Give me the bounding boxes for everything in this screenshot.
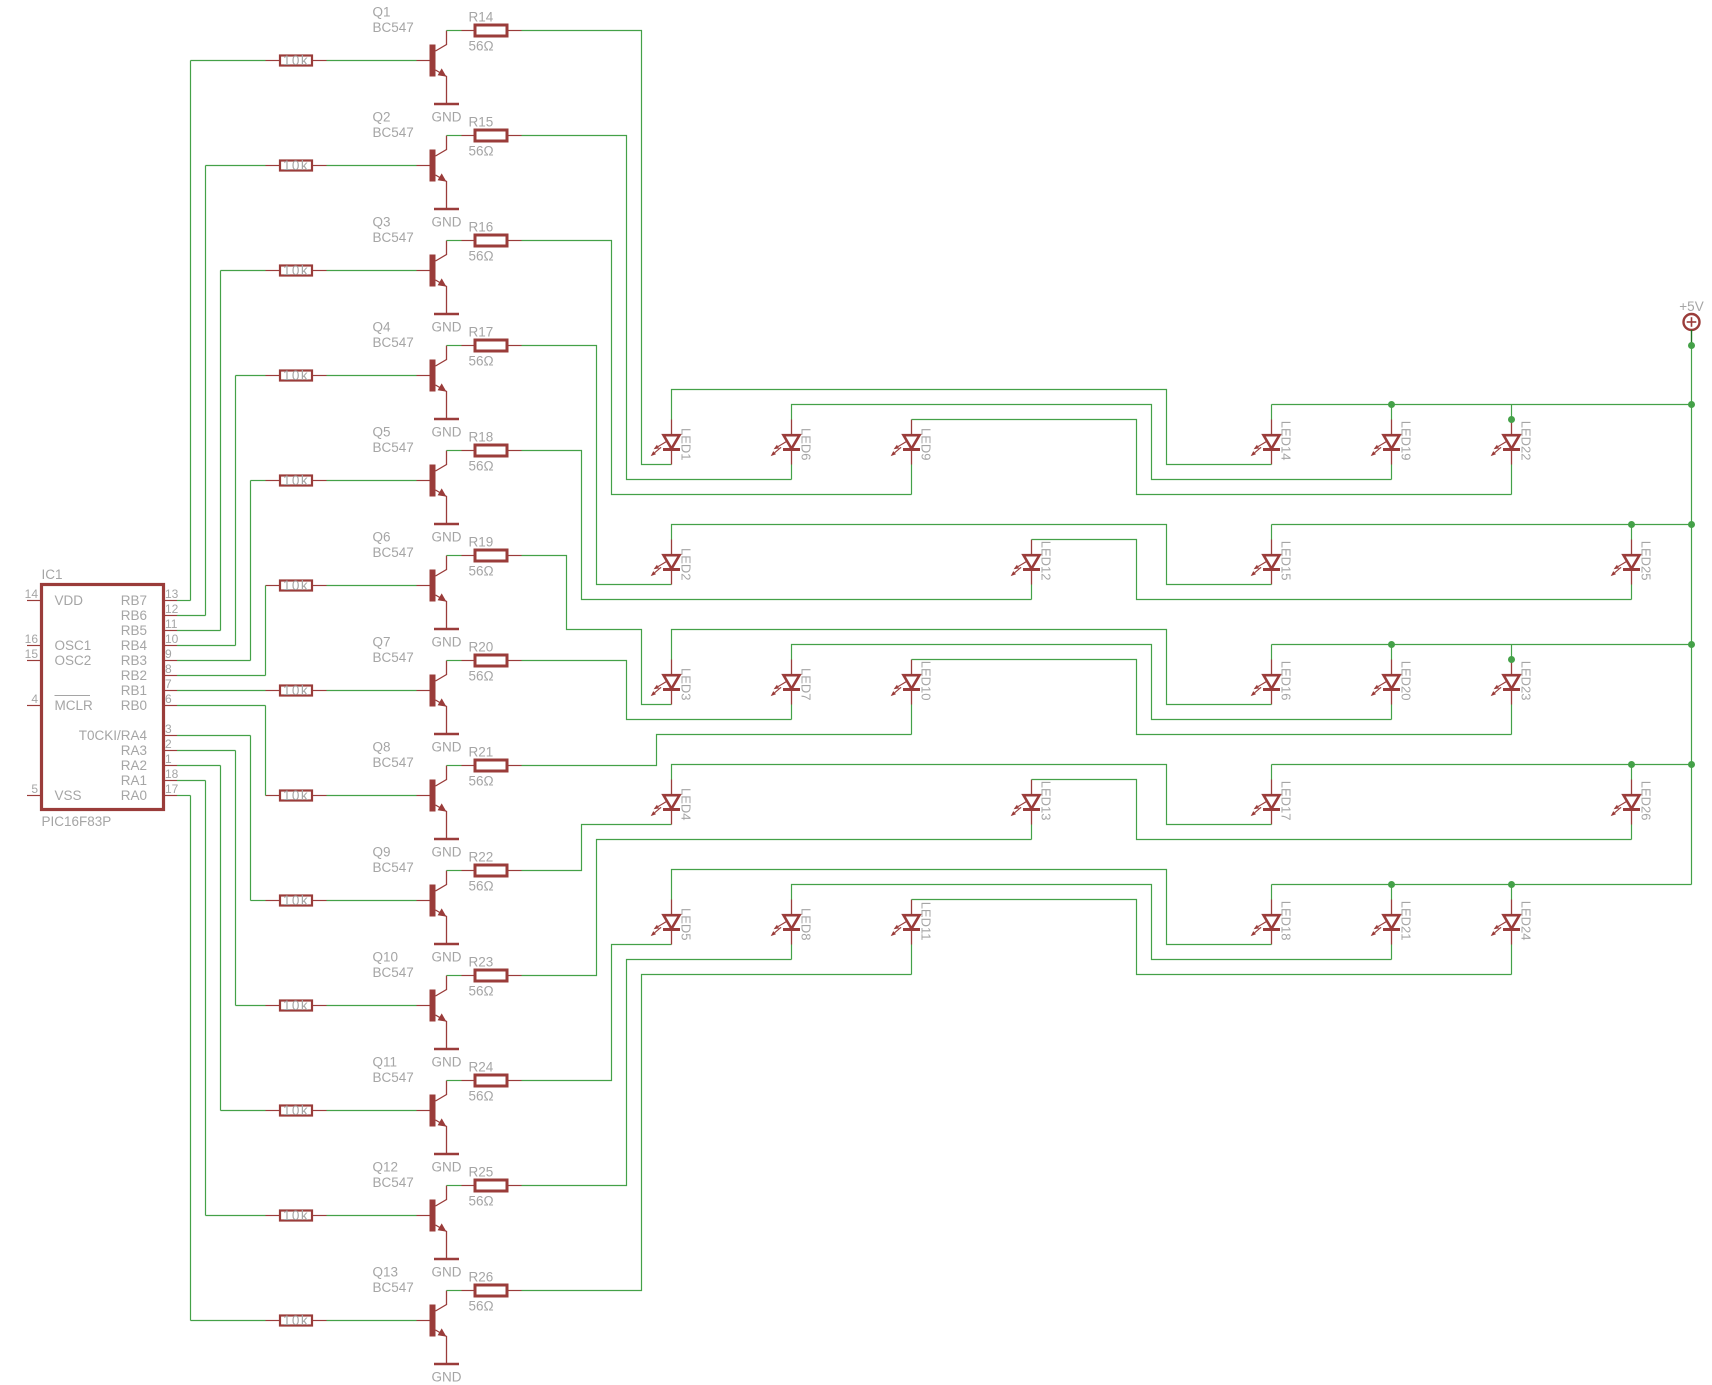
svg-text:LED12: LED12 <box>1039 541 1054 581</box>
svg-text:R15: R15 <box>469 115 494 130</box>
IC1 pin 9 (RB3) stub <box>164 660 178 662</box>
IC1 pin 7 (RB1) stub <box>164 690 178 692</box>
svg-text:RA3: RA3 <box>121 743 147 758</box>
wire net RB7: feeder vertical to Q1 row <box>190 61 192 601</box>
svg-text:Q2: Q2 <box>373 110 391 125</box>
svg-text:R17: R17 <box>469 325 494 340</box>
svg-text:Q13: Q13 <box>373 1265 399 1280</box>
svg-text:LED5: LED5 <box>679 908 694 941</box>
resistor 10k (base of Q9) pins <box>266 900 281 902</box>
wire +5V rail vertical <box>1691 346 1693 885</box>
wire LED6 anode to LED19 cathode <box>792 405 1392 480</box>
svg-text:1: 1 <box>165 752 172 766</box>
resistor R15 pins <box>462 135 476 137</box>
resistor R23 pins <box>462 975 476 977</box>
transistor Q12 emitter <box>436 1225 447 1259</box>
transistor Q9 BC547 base bar <box>430 885 436 917</box>
svg-text:R16: R16 <box>469 220 494 235</box>
wire net RB2: feeder vertical to Q6 row <box>265 586 267 676</box>
transistor Q13 emitter arrow <box>438 1328 447 1336</box>
svg-text:LED21: LED21 <box>1399 901 1414 941</box>
wire Q10 collector to R23 <box>447 975 462 977</box>
svg-text:T0CKI/RA4: T0CKI/RA4 <box>79 728 148 743</box>
svg-text:BC547: BC547 <box>373 440 414 455</box>
transistor Q12 emitter arrow <box>438 1223 447 1231</box>
svg-text:RA1: RA1 <box>121 773 147 788</box>
MCLR overline <box>55 695 91 697</box>
svg-text:GND: GND <box>432 530 462 545</box>
svg-text:LED4: LED4 <box>679 788 694 821</box>
svg-text:BC547: BC547 <box>373 1070 414 1085</box>
LED LED15 symbol <box>1251 540 1280 585</box>
svg-text:LED23: LED23 <box>1519 661 1534 701</box>
ground symbol GND (Q13 emitter) <box>434 1363 459 1366</box>
wire LED21 cathode extension <box>1391 945 1393 960</box>
transistor Q5 emitter <box>436 490 447 524</box>
wire LED8 anode to LED21 cathode <box>792 885 1392 960</box>
resistor 10k (base of Q5) pins <box>266 480 281 482</box>
svg-text:LED19: LED19 <box>1399 421 1414 461</box>
LED LED23 symbol <box>1491 660 1520 705</box>
transistor Q5 collector <box>436 451 447 472</box>
svg-text:56Ω: 56Ω <box>469 354 494 369</box>
svg-text:BC547: BC547 <box>373 860 414 875</box>
IC1 pin 11 (RB5) stub <box>164 630 178 632</box>
svg-text:R20: R20 <box>469 640 494 655</box>
transistor Q10 emitter arrow <box>438 1013 447 1021</box>
svg-text:56Ω: 56Ω <box>469 1089 494 1104</box>
LED LED19 symbol <box>1371 420 1400 465</box>
wire Q6 collector to R19 <box>447 555 462 557</box>
svg-text:8: 8 <box>165 662 172 676</box>
transistor Q7 collector <box>436 661 447 682</box>
transistor Q8 emitter <box>436 805 447 839</box>
svg-text:LED17: LED17 <box>1279 781 1294 821</box>
svg-text:10k: 10k <box>283 1313 309 1328</box>
wire net RA4: feeder vertical to Q9 row <box>250 736 252 901</box>
wire net RB1: IC pin 7 to Q7 base resistor <box>177 690 266 692</box>
wire LED11 anode to LED24 cathode <box>912 900 1512 975</box>
LED LED2 symbol <box>651 540 680 585</box>
wire LED24 anode riser <box>1511 885 1513 900</box>
wire LED11 cathode extension <box>911 945 913 975</box>
svg-text:56Ω: 56Ω <box>469 39 494 54</box>
svg-text:7: 7 <box>165 677 172 691</box>
svg-text:LED15: LED15 <box>1279 541 1294 581</box>
transistor Q2 base pin <box>417 165 430 167</box>
LED LED6 symbol <box>771 420 800 465</box>
svg-text:LED11: LED11 <box>919 902 934 941</box>
resistor 10k (base of Q13) pins <box>266 1320 281 1322</box>
wire LED9 cathode extension <box>911 465 913 495</box>
svg-text:4: 4 <box>31 692 38 706</box>
resistor R20 pins <box>462 660 476 662</box>
wire LED4 anode to LED17 cathode <box>672 765 1272 825</box>
svg-text:LED1: LED1 <box>679 428 694 461</box>
transistor Q13 collector <box>436 1291 447 1312</box>
wire LED22 cathode extension <box>1511 465 1513 495</box>
wire base resistor to Q7 base <box>327 690 417 692</box>
svg-text:Q12: Q12 <box>373 1160 399 1175</box>
transistor Q6 base pin <box>417 585 430 587</box>
LED LED8 symbol <box>771 900 800 945</box>
transistor Q5 base pin <box>417 480 430 482</box>
transistor Q13 base pin <box>417 1320 430 1322</box>
svg-text:12: 12 <box>165 602 179 616</box>
IC1 pin 15 (OSC2) stub <box>27 660 42 662</box>
ground symbol GND (Q3 emitter) <box>434 313 459 316</box>
wire Q12 collector to R25 <box>447 1185 462 1187</box>
wire net RA2: feeder vertical to Q11 row <box>220 766 222 1111</box>
transistor Q6 emitter <box>436 595 447 629</box>
svg-text:GND: GND <box>432 740 462 755</box>
svg-text:BC547: BC547 <box>373 965 414 980</box>
transistor Q10 BC547 base bar <box>430 990 436 1022</box>
wire base resistor to Q2 base <box>327 165 417 167</box>
junction LED26 anode <box>1628 761 1635 768</box>
transistor Q9 collector <box>436 871 447 892</box>
transistor Q6 collector <box>436 556 447 577</box>
svg-text:Q5: Q5 <box>373 425 391 440</box>
svg-text:R22: R22 <box>469 850 494 865</box>
transistor Q8 collector <box>436 766 447 787</box>
wire LED25 cathode extension <box>1631 585 1633 600</box>
wire LED26 cathode extension <box>1631 825 1633 840</box>
wire +5V bus row 2 <box>1272 524 1692 526</box>
wire LED7 cathode extension <box>791 705 793 720</box>
IC1 pin 1 (RA2) stub <box>164 765 178 767</box>
svg-text:15: 15 <box>25 647 39 661</box>
svg-text:+5V: +5V <box>1679 299 1703 314</box>
svg-text:Q7: Q7 <box>373 635 391 650</box>
resistor 10k (base of Q11) body <box>280 1106 312 1116</box>
wire LED1 anode to LED14 cathode <box>672 390 1272 465</box>
LED LED25 symbol <box>1611 540 1640 585</box>
wire base resistor to Q1 base <box>327 60 417 62</box>
svg-text:LED9: LED9 <box>919 428 934 461</box>
LED LED7 symbol <box>771 660 800 705</box>
resistor R22 pins <box>462 870 476 872</box>
ground symbol GND (Q2 emitter) <box>434 208 459 211</box>
svg-text:56Ω: 56Ω <box>469 669 494 684</box>
svg-text:RB4: RB4 <box>121 638 148 653</box>
resistor 10k (base of Q1) pins <box>266 60 281 62</box>
resistor R14 pins <box>462 30 476 32</box>
resistor R19 pins <box>462 555 476 557</box>
svg-text:10: 10 <box>165 632 179 646</box>
transistor Q6 emitter arrow <box>438 593 447 601</box>
LED LED1 symbol <box>651 420 680 465</box>
svg-text:GND: GND <box>432 1160 462 1175</box>
wire net RA0: feeder vertical to Q13 row <box>190 796 192 1321</box>
transistor Q9 emitter arrow <box>438 908 447 916</box>
svg-text:GND: GND <box>432 950 462 965</box>
svg-text:10k: 10k <box>283 998 309 1013</box>
svg-text:Q4: Q4 <box>373 320 392 335</box>
svg-text:LED24: LED24 <box>1519 901 1534 941</box>
wire net RB5: feeder vertical to Q3 row <box>220 271 222 631</box>
wire +5V bus row 4 <box>1272 764 1692 766</box>
wire net RA4: IC pin stub to feeder (horizontal) <box>177 735 251 737</box>
wire LED23 cathode extension <box>1511 705 1513 735</box>
wire base resistor to Q4 base <box>327 375 417 377</box>
transistor Q5 BC547 base bar <box>430 465 436 497</box>
transistor Q7 base pin <box>417 690 430 692</box>
wire LED2 anode to LED15 cathode <box>672 525 1272 585</box>
svg-text:LED26: LED26 <box>1639 781 1654 821</box>
wire net RA0: Q13 base row horizontal <box>191 1320 266 1322</box>
transistor Q11 emitter arrow <box>438 1118 447 1126</box>
wire LED22 anode riser <box>1511 405 1513 420</box>
svg-text:3: 3 <box>165 722 172 736</box>
svg-text:RA0: RA0 <box>121 788 147 803</box>
svg-text:R19: R19 <box>469 535 494 550</box>
resistor R22 body <box>475 865 507 876</box>
wire net RB5: IC pin stub to feeder (horizontal) <box>177 630 221 632</box>
resistor R19 body <box>475 550 507 561</box>
svg-text:RB6: RB6 <box>121 608 147 623</box>
svg-text:56Ω: 56Ω <box>469 879 494 894</box>
svg-text:BC547: BC547 <box>373 335 414 350</box>
resistor R25 pins <box>462 1185 476 1187</box>
svg-text:LED7: LED7 <box>799 668 814 701</box>
wire net RB0: IC pin stub to feeder (horizontal) <box>177 705 266 707</box>
LED LED24 symbol <box>1491 900 1520 945</box>
wire LED10 anode to LED23 cathode <box>912 660 1512 735</box>
LED LED12 symbol <box>1011 540 1040 585</box>
wire net R22 output to LED4 cathode <box>522 825 672 871</box>
wire net R26 output to LED11 cathode <box>522 975 912 1291</box>
ground symbol GND (Q10 emitter) <box>434 1048 459 1051</box>
resistor R18 pins <box>462 450 476 452</box>
svg-text:56Ω: 56Ω <box>469 459 494 474</box>
resistor 10k (base of Q7) pins <box>266 690 281 692</box>
wire LED3 anode to LED16 cathode <box>672 630 1272 705</box>
transistor Q3 collector <box>436 241 447 262</box>
resistor 10k (base of Q1) body <box>280 56 312 66</box>
LED LED17 symbol <box>1251 780 1280 825</box>
svg-text:BC547: BC547 <box>373 20 414 35</box>
wire net RB3: feeder vertical to Q5 row <box>250 481 252 661</box>
transistor Q7 emitter arrow <box>438 698 447 706</box>
svg-text:Q6: Q6 <box>373 530 391 545</box>
wire net RB4: IC pin stub to feeder (horizontal) <box>177 645 236 647</box>
transistor Q9 emitter <box>436 910 447 944</box>
svg-text:18: 18 <box>165 767 179 781</box>
wire LED23 anode riser <box>1511 645 1513 660</box>
resistor R17 body <box>475 340 507 351</box>
wire LED12 cathode extension <box>1031 585 1033 600</box>
resistor 10k (base of Q6) body <box>280 581 312 591</box>
junction bus2/rail <box>1688 521 1695 528</box>
wire LED19 cathode extension <box>1391 465 1393 480</box>
wire LED18 anode riser <box>1271 885 1273 900</box>
wire net RA3: Q10 base row horizontal <box>236 1005 266 1007</box>
svg-text:GND: GND <box>432 1265 462 1280</box>
svg-text:GND: GND <box>432 320 462 335</box>
svg-text:LED13: LED13 <box>1039 781 1054 821</box>
transistor Q2 emitter arrow <box>438 173 447 181</box>
ground symbol GND (Q8 emitter) <box>434 838 459 841</box>
wire LED25 anode riser <box>1631 525 1633 540</box>
svg-text:LED10: LED10 <box>919 661 934 701</box>
junction LED24 anode <box>1508 881 1515 888</box>
svg-text:13: 13 <box>165 587 179 601</box>
wire base resistor to Q8 base <box>327 795 417 797</box>
resistor 10k (base of Q2) body <box>280 161 312 171</box>
IC1 pin 2 (RA3) stub <box>164 750 178 752</box>
svg-text:10k: 10k <box>283 53 309 68</box>
transistor Q4 collector <box>436 346 447 367</box>
svg-text:Q9: Q9 <box>373 845 391 860</box>
resistor 10k (base of Q10) pins <box>266 1005 281 1007</box>
LED LED22 symbol <box>1491 420 1520 465</box>
svg-text:RB3: RB3 <box>121 653 147 668</box>
wire LED10 cathode extension <box>911 705 913 735</box>
svg-text:10k: 10k <box>283 788 309 803</box>
wire +5V bus row 3 <box>1272 644 1692 646</box>
resistor R17 pins <box>462 345 476 347</box>
transistor Q3 BC547 base bar <box>430 255 436 287</box>
junction bus3/rail <box>1688 641 1695 648</box>
svg-text:17: 17 <box>165 782 179 796</box>
svg-text:OSC2: OSC2 <box>55 653 92 668</box>
junction LED22 anode <box>1508 416 1515 423</box>
svg-text:GND: GND <box>432 1055 462 1070</box>
svg-text:RA2: RA2 <box>121 758 147 773</box>
svg-text:IC1: IC1 <box>42 567 63 582</box>
svg-text:RB7: RB7 <box>121 593 147 608</box>
transistor Q8 BC547 base bar <box>430 780 436 812</box>
svg-text:LED6: LED6 <box>799 428 814 461</box>
transistor Q13 BC547 base bar <box>430 1305 436 1337</box>
wire LED15 anode riser <box>1271 525 1273 540</box>
wire net R18 output to LED12 cathode <box>522 451 1032 600</box>
wire net RB4: feeder vertical to Q4 row <box>235 376 237 646</box>
resistor R20 body <box>475 655 507 666</box>
svg-text:LED14: LED14 <box>1279 421 1294 461</box>
wire net RB2: IC pin stub to feeder (horizontal) <box>177 675 266 677</box>
wire LED19 anode riser <box>1391 405 1393 420</box>
wire +5V bus row 5 <box>1272 884 1692 886</box>
junction bus1/rail <box>1688 401 1695 408</box>
svg-text:LED20: LED20 <box>1399 661 1414 701</box>
ground symbol GND (Q1 emitter) <box>434 103 459 106</box>
resistor R18 body <box>475 445 507 456</box>
svg-text:BC547: BC547 <box>373 650 414 665</box>
IC1 pin 17 (RA0) stub <box>164 795 178 797</box>
resistor R15 body <box>475 130 507 141</box>
svg-text:56Ω: 56Ω <box>469 249 494 264</box>
svg-text:OSC1: OSC1 <box>55 638 92 653</box>
IC1 pin 14 (VDD) stub <box>27 600 42 602</box>
transistor Q10 emitter <box>436 1015 447 1049</box>
svg-text:R24: R24 <box>469 1060 494 1075</box>
svg-text:BC547: BC547 <box>373 545 414 560</box>
LED LED9 symbol <box>891 420 920 465</box>
resistor 10k (base of Q6) pins <box>266 585 281 587</box>
svg-text:BC547: BC547 <box>373 125 414 140</box>
wire net RA4: Q9 base row horizontal <box>251 900 266 902</box>
svg-text:Q3: Q3 <box>373 215 391 230</box>
transistor Q12 BC547 base bar <box>430 1200 436 1232</box>
wire LED20 anode riser <box>1391 645 1393 660</box>
resistor 10k (base of Q9) body <box>280 896 312 906</box>
resistor 10k (base of Q4) pins <box>266 375 281 377</box>
svg-text:RB0: RB0 <box>121 698 147 713</box>
transistor Q10 base pin <box>417 1005 430 1007</box>
svg-text:GND: GND <box>432 635 462 650</box>
wire LED13 cathode extension <box>1031 825 1033 840</box>
wire Q5 collector to R18 <box>447 450 462 452</box>
svg-text:VDD: VDD <box>55 593 84 608</box>
svg-text:2: 2 <box>165 737 172 751</box>
resistor R24 pins <box>462 1080 476 1082</box>
transistor Q2 collector <box>436 136 447 157</box>
LED LED10 symbol <box>891 660 920 705</box>
IC1 pin 13 (RB7) stub <box>164 600 178 602</box>
svg-text:BC547: BC547 <box>373 755 414 770</box>
transistor Q3 base pin <box>417 270 430 272</box>
wire net RA3: feeder vertical to Q10 row <box>235 751 237 1006</box>
svg-text:RB5: RB5 <box>121 623 147 638</box>
resistor 10k (base of Q7) body <box>280 686 312 696</box>
wire net RB0: feeder vertical to Q8 row <box>265 706 267 796</box>
svg-text:Q11: Q11 <box>373 1055 398 1070</box>
transistor Q1 emitter <box>436 70 447 104</box>
ground symbol GND (Q4 emitter) <box>434 418 459 421</box>
wire LED12 anode to LED25 cathode <box>1032 540 1632 600</box>
transistor Q11 base pin <box>417 1110 430 1112</box>
wire net R17 output to LED2 cathode <box>522 346 672 585</box>
LED LED13 symbol <box>1011 780 1040 825</box>
junction LED20 anode <box>1388 641 1395 648</box>
svg-text:10k: 10k <box>283 263 309 278</box>
wire Q4 collector to R17 <box>447 345 462 347</box>
transistor Q6 BC547 base bar <box>430 570 436 602</box>
ground symbol GND (Q5 emitter) <box>434 523 459 526</box>
svg-text:56Ω: 56Ω <box>469 984 494 999</box>
IC1 pin 5 (VSS) stub <box>27 795 42 797</box>
svg-text:RB2: RB2 <box>121 668 147 683</box>
transistor Q3 emitter <box>436 280 447 314</box>
svg-text:10k: 10k <box>283 158 309 173</box>
svg-text:10k: 10k <box>283 578 309 593</box>
transistor Q7 emitter <box>436 700 447 734</box>
svg-text:Q10: Q10 <box>373 950 399 965</box>
resistor 10k (base of Q3) pins <box>266 270 281 272</box>
transistor Q11 BC547 base bar <box>430 1095 436 1127</box>
resistor 10k (base of Q8) body <box>280 791 312 801</box>
svg-text:RB1: RB1 <box>121 683 147 698</box>
svg-text:16: 16 <box>25 632 39 646</box>
wire net RA1: IC pin stub to feeder (horizontal) <box>177 780 206 782</box>
transistor Q5 emitter arrow <box>438 488 447 496</box>
LED LED26 symbol <box>1611 780 1640 825</box>
transistor Q12 collector <box>436 1186 447 1207</box>
wire base resistor to Q3 base <box>327 270 417 272</box>
IC1 pin 12 (RB6) stub <box>164 615 178 617</box>
wire LED21 anode riser <box>1391 885 1393 900</box>
junction LED23 anode <box>1508 656 1515 663</box>
LED LED16 symbol <box>1251 660 1280 705</box>
transistor Q4 emitter arrow <box>438 383 447 391</box>
svg-text:LED2: LED2 <box>679 548 694 581</box>
wire net RB4: Q4 base row horizontal <box>236 375 266 377</box>
resistor 10k (base of Q13) body <box>280 1316 312 1326</box>
wire LED8 cathode extension <box>791 945 793 960</box>
resistor 10k (base of Q11) pins <box>266 1110 281 1112</box>
